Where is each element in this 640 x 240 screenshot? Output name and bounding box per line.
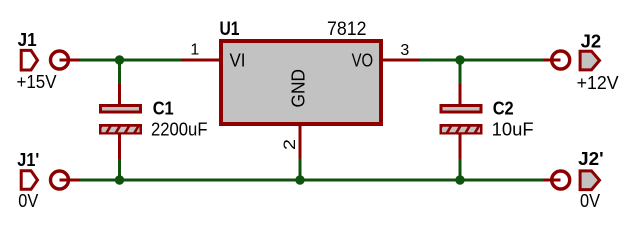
capacitor C1 top plate	[101, 106, 141, 113]
junction 0V at U1 GND	[295, 175, 304, 184]
svg-text:GND: GND	[289, 69, 309, 108]
wire net 0V: riser from U1 GND	[299, 159, 302, 182]
svg-text:3: 3	[400, 42, 409, 59]
pin stub J2'	[544, 179, 561, 182]
svg-text:J1': J1'	[17, 150, 39, 170]
svg-text:7812: 7812	[327, 19, 367, 40]
pin stub J1	[60, 59, 81, 62]
capacitor C1 bottom plate (hatched)	[101, 126, 141, 134]
capacitor C2 bottom plate (hatched)	[441, 126, 481, 134]
capacitor C2 top lead	[459, 84, 462, 104]
capacitor C1 bottom lead	[118, 135, 121, 160]
svg-text:2200uF: 2200uF	[151, 119, 208, 139]
pin circle J1'	[51, 171, 69, 189]
capacitor C1 top lead	[118, 84, 121, 104]
wire net 0V: riser from C2 bottom	[459, 159, 462, 182]
svg-text:10uF: 10uF	[492, 119, 534, 139]
junction +15V at C1	[115, 55, 124, 64]
svg-text:C1: C1	[153, 99, 174, 119]
svg-text:C2: C2	[493, 99, 514, 119]
connector J1' symbol	[21, 171, 37, 190]
junction +12V at C2	[455, 55, 464, 64]
junction 0V at C2	[455, 175, 464, 184]
junction 0V at C1	[115, 175, 124, 184]
svg-text:0V: 0V	[580, 191, 600, 211]
wire net 0V: riser from C1 bottom	[118, 159, 121, 182]
capacitor C2 top plate	[441, 106, 481, 113]
svg-text:1: 1	[190, 42, 199, 59]
svg-text:2: 2	[280, 139, 299, 150]
connector J2 symbol	[580, 51, 599, 70]
pin 1 stub U1 VI	[181, 59, 220, 62]
wire net 0V: bottom rail J1' to J2'	[80, 179, 544, 182]
wire net +15V: J1 pin to U1 VI	[80, 59, 181, 62]
svg-text:VI: VI	[230, 51, 246, 71]
connector J1 symbol	[21, 50, 37, 70]
wire net +12V: drop to C2 top	[459, 59, 462, 85]
capacitor C2 bottom lead	[459, 135, 462, 160]
pin circle J2	[552, 51, 570, 69]
pin stub J1'	[60, 179, 81, 182]
wire net +12V: U1 VO to J2 pin	[420, 59, 544, 62]
connector J2' symbol	[580, 171, 599, 190]
svg-text:VO: VO	[352, 51, 374, 71]
pin 2 stub U1 GND	[299, 123, 302, 159]
svg-text:J2': J2'	[578, 149, 604, 169]
op-amp regulator U1 body	[221, 41, 381, 124]
svg-text:J2: J2	[581, 31, 602, 51]
pin 3 stub U1 VO	[381, 59, 420, 62]
svg-text:+15V: +15V	[17, 72, 57, 92]
wire net +15V: drop to C1 top	[118, 59, 121, 85]
pin circle J1	[51, 51, 69, 69]
svg-text:0V: 0V	[18, 191, 38, 211]
svg-text:J1: J1	[18, 30, 37, 50]
pin stub J2	[544, 59, 561, 62]
pin circle J2'	[552, 171, 570, 189]
svg-text:+12V: +12V	[577, 73, 619, 93]
svg-text:U1: U1	[220, 19, 240, 40]
